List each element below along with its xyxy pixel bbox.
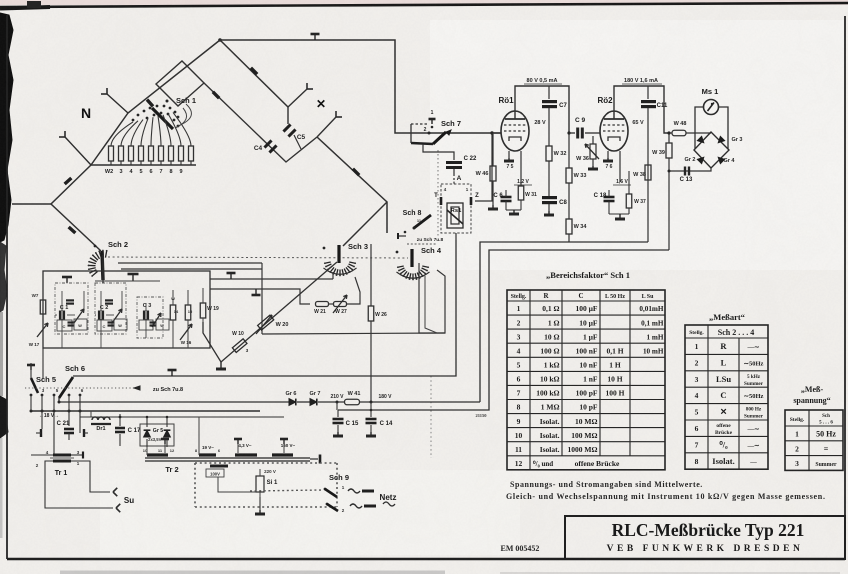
wire W21-W27 [329, 303, 333, 305]
resistor fan bus [91, 164, 196, 166]
Tr2 secondary winding 100V [210, 465, 228, 468]
resistor W37 [628, 171, 630, 194]
resistor W36 variable grid leak [592, 136, 594, 144]
wire Sch4 box [419, 263, 445, 333]
resistor W32 [546, 146, 552, 161]
tick on lower diagonal [213, 92, 219, 98]
wire bus cluster lower [210, 289, 310, 304]
capacitor C6 electrolytic [501, 196, 512, 199]
wire grid input [494, 132, 501, 134]
resistor W27 with arrow [334, 302, 347, 307]
switch Sch3 [337, 245, 340, 263]
wire NE bridge edge upper [220, 40, 288, 107]
drawing frame border [6, 15, 8, 559]
capacitor C14 electrolytic [370, 402, 372, 417]
wire Sch6 to Gr6 bus [59, 398, 290, 402]
ground in Si1 box [259, 497, 261, 510]
resistor W26 [370, 244, 372, 306]
terminal below lower bus [255, 289, 257, 295]
terminal N upper [106, 88, 108, 94]
tick on zigzag upper [65, 178, 72, 184]
cluster extra capacitors and value boxes [68, 321, 75, 323]
capacitor C9 coupling [569, 132, 575, 134]
cluster inner dashed box C1 [55, 283, 88, 334]
tube Ro2 cathode pins [607, 151, 609, 158]
terminal N lower [64, 131, 66, 137]
resistor W41 [345, 399, 360, 405]
wire Gr7 to W41 [318, 401, 344, 403]
transformer Tr2 core [145, 457, 310, 459]
mech dashes Sch4 down to Sch9 [430, 376, 432, 458]
table Messart [685, 325, 768, 469]
wire diagonal into Sch3 [343, 202, 387, 246]
cluster internal wires [55, 314, 57, 316]
resistor W16 variable [180, 324, 192, 340]
diode Gr6 [289, 399, 296, 406]
scan artifact left edge smudge [0, 13, 13, 242]
table Messspannung [785, 410, 843, 470]
tube Ro1 [501, 111, 529, 151]
cluster left resistor W7 [40, 300, 46, 314]
resistor W21 [316, 302, 329, 307]
ground on cluster top left [66, 277, 68, 283]
Netz squiggles [348, 489, 360, 493]
wire Sch8 contacts [398, 235, 406, 237]
terminal above Sch5 [30, 365, 32, 370]
capacitor C8 [542, 196, 557, 199]
component cluster outer box [43, 271, 210, 348]
diode Gr7 [310, 399, 317, 406]
ground on cluster top right [132, 274, 134, 281]
rectifier Gr5 box [140, 424, 174, 446]
capacitor C18 electrolytic [604, 196, 615, 199]
wire loop C vertical [73, 240, 456, 376]
resistor W15 [185, 305, 191, 320]
capacitor C13 line [669, 168, 711, 171]
switch Sch1 wiper [152, 108, 173, 129]
capacitor C15 electrolytic [337, 410, 339, 417]
terminal plug mid [83, 429, 85, 437]
node top vertex of bridge [218, 38, 222, 42]
ground below V [220, 362, 222, 369]
wire lower diagonal through C4 [204, 83, 317, 162]
diode Gr5 left [144, 430, 151, 437]
switch Sch2 [102, 251, 103, 280]
capacitor C17 [90, 411, 92, 417]
power bus junction dots [30, 410, 33, 413]
wires cluster bottom to switches [42, 348, 44, 378]
title block box [565, 516, 845, 559]
switch Sch5 lever [31, 378, 38, 393]
wire V right arm with W20 [221, 262, 337, 362]
switch Sch6 lever [59, 377, 73, 398]
tube Ro1 anode bracket [515, 86, 569, 133]
terminal Su upper [113, 492, 117, 496]
wire X branch lower terminal [317, 117, 336, 137]
switch Sch4 [410, 249, 413, 267]
Tr2 winding connections [146, 447, 148, 455]
resistor fan W2-W9 [109, 146, 114, 161]
switch Sch7 contact 2 [428, 132, 431, 135]
tick on zigzag lower [69, 227, 76, 233]
Sch9 dotted feed [250, 490, 322, 491]
tube Ro2 anode bracket [614, 86, 669, 133]
mech dashes Sch7 down [437, 150, 439, 237]
switch Sch1 plate [156, 61, 204, 106]
resistor W31 [518, 186, 524, 200]
wire V left arm [203, 322, 221, 362]
scan artifact top edge line [0, 3, 848, 7]
Sch9 poles [324, 488, 327, 491]
mech link Sch2-Sch3-Sch4 [108, 257, 408, 258]
wire junction to Z [475, 133, 492, 201]
inductor Dr1 [92, 417, 98, 420]
capacitor C11 [647, 86, 649, 99]
wire X branch vertical [287, 107, 289, 124]
resistor W20 variable [258, 315, 274, 330]
rectifier diodes [697, 136, 705, 144]
scan artifact bottom edge smudges [60, 571, 445, 574]
resistor W38 [645, 165, 651, 180]
resistor W48 [669, 132, 672, 134]
switch Sch1 contact arc [132, 119, 135, 122]
table Bereichsfaktor [507, 290, 665, 470]
terminal plug left [40, 429, 42, 437]
Tr2 terminals up [237, 439, 239, 444]
switch contacts row [30, 394, 33, 397]
resistor W14 [170, 305, 176, 320]
cluster inner dashed box C2 [95, 283, 126, 334]
resistor W33 [568, 133, 570, 168]
rectifier bridge Gr2 Gr3 Gr4 diamond [694, 132, 729, 168]
switch Sch1 label [166, 100, 169, 103]
wire top bus to amplifier [220, 40, 501, 133]
fuse Si1 [256, 476, 264, 492]
diode Gr5 right [164, 430, 171, 437]
node A [453, 169, 455, 176]
rail C11 down [647, 108, 649, 242]
capacitor C5 [283, 124, 290, 131]
tube Ro2 [600, 111, 628, 151]
tick on NW edge [147, 100, 153, 107]
resistor W39 [668, 133, 670, 143]
wire loop A [480, 242, 648, 402]
wire bus cluster to Sch3 [210, 278, 333, 280]
Si1 dashed enclosure [195, 506, 337, 508]
switch Sch7 feed [411, 143, 433, 144]
resistor W34 [566, 219, 572, 234]
switch Sch7 lever [433, 132, 446, 144]
wire loop B [338, 250, 669, 410]
transformer Tr2 primary windings [147, 453, 168, 456]
resistor W10 rotated [232, 339, 247, 353]
wire to C22 [423, 144, 454, 160]
transformer Tr1 leads [31, 454, 53, 456]
wire bus under Sch3-Sch4 [262, 333, 445, 334]
terminal on top bus [314, 34, 316, 40]
mech dotted link to Sch7/8 [25, 387, 138, 389]
wire loop to Sch4 right [425, 276, 437, 333]
capacitor C7 [548, 86, 550, 99]
tube Ro1 cathode pins [508, 151, 510, 158]
Tr2 right terminal [310, 458, 318, 460]
capacitor C4 [264, 140, 271, 147]
wire NW bridge edge [91, 40, 220, 165]
potentiometer Rs1 box [441, 184, 471, 233]
wire SE bridge edge to Sch3 [317, 137, 387, 233]
wire W27 right [347, 277, 360, 304]
meter leads [695, 107, 703, 149]
cluster internal verticals [61, 291, 63, 311]
switch Sch7 contact 1 [431, 119, 433, 124]
wires from switch contacts down [30, 395, 32, 411]
wire left zigzag edge [51, 165, 101, 251]
switch Sch1 arc links [178, 104, 191, 126]
wire X branch upper terminal [288, 89, 307, 107]
wire Rs1 bottom to Sch4 [455, 233, 457, 240]
terminal on cluster bus [230, 273, 232, 279]
switch Sch2 contact wires [118, 262, 262, 264]
wire W41 right [360, 401, 480, 403]
terminal on loop C bus [171, 370, 173, 376]
tick on SE edge [353, 169, 359, 175]
wire Gr6-Gr7 [297, 401, 310, 403]
cluster inner dashed box C3 [137, 297, 163, 338]
resistor W19 [200, 303, 206, 318]
transformer Tr1 [53, 454, 71, 457]
capacitor C22 [446, 161, 462, 164]
wire stub to frame [12, 203, 51, 205]
tick on NE edge [251, 68, 257, 74]
terminal Su lower [116, 508, 120, 512]
resistor W46 [492, 133, 494, 166]
wire C15 C14 bus [31, 410, 260, 412]
wires power top bus [80, 416, 199, 418]
Si1 wires [218, 477, 256, 492]
